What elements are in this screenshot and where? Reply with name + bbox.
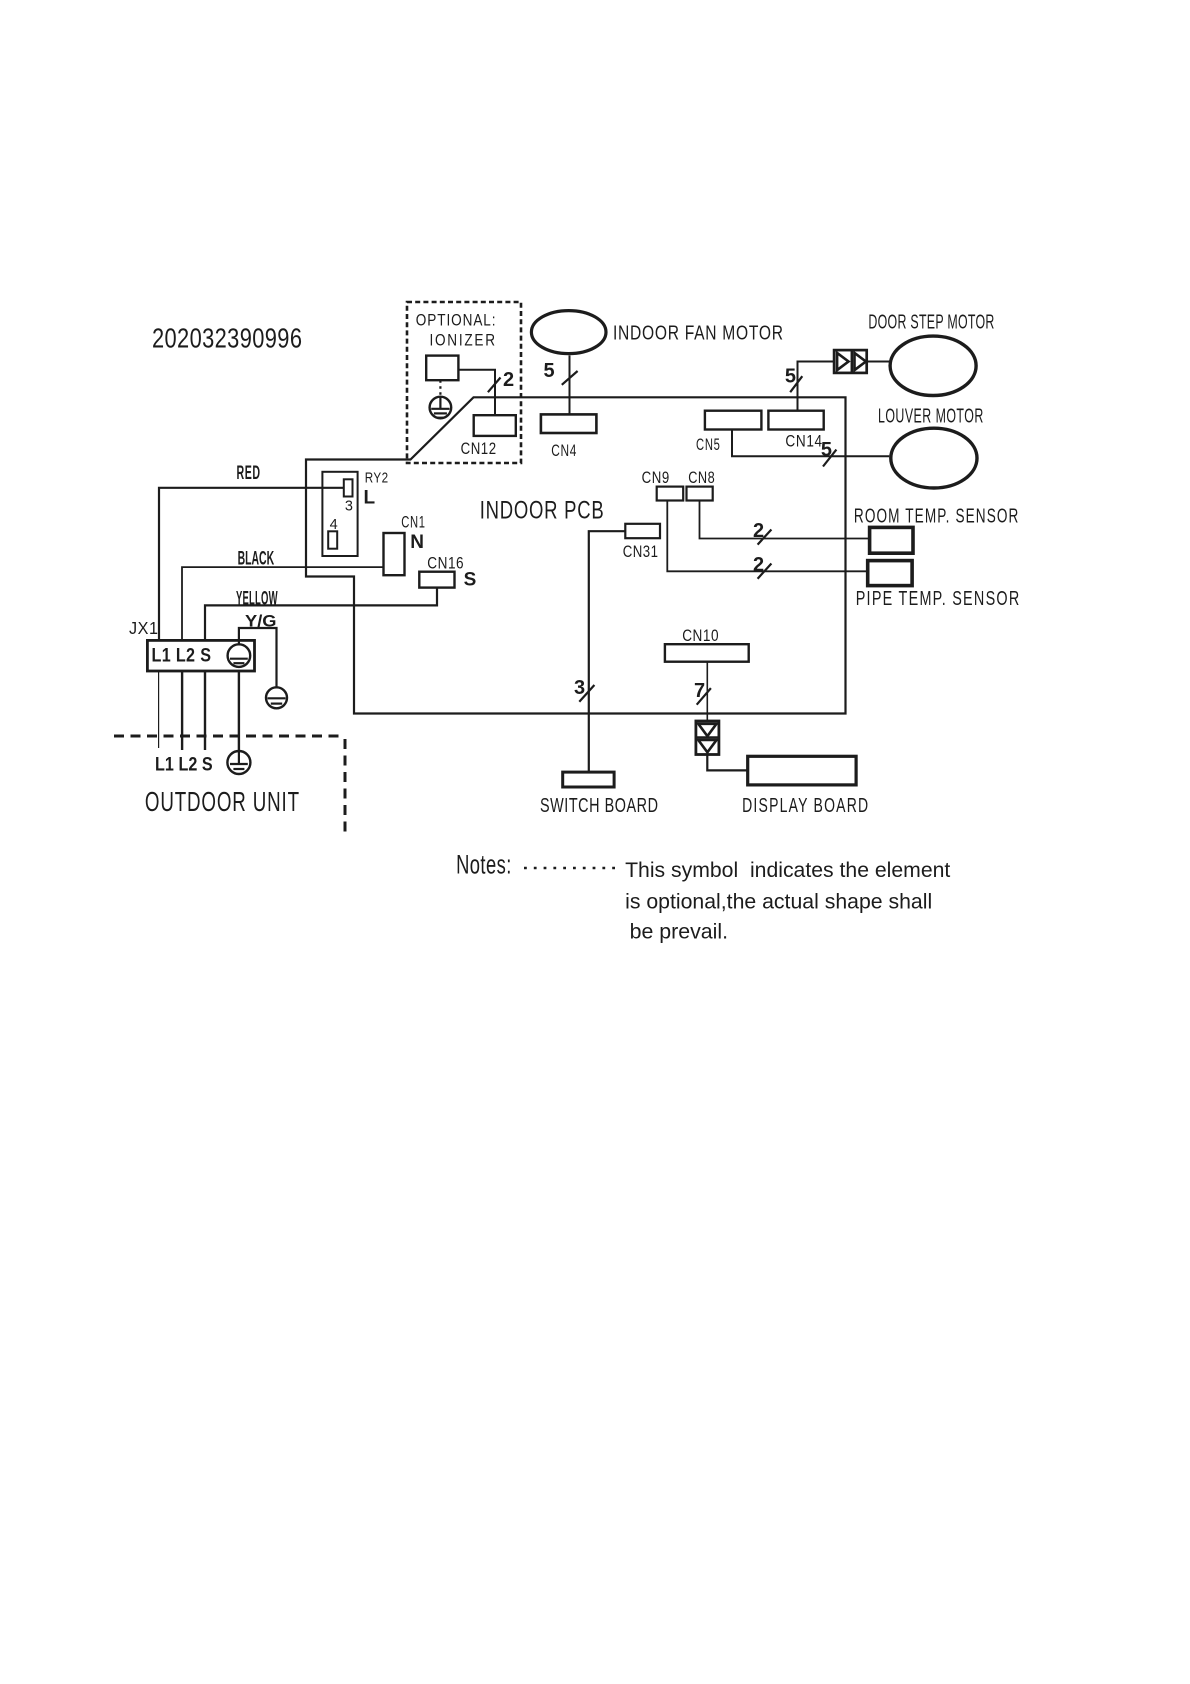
svg-text:3: 3 bbox=[345, 499, 353, 515]
wire RED from JX1 L1 to RY2 pin 3 bbox=[159, 488, 344, 641]
svg-text:CN31: CN31 bbox=[623, 543, 658, 562]
connector CN5 bbox=[705, 411, 762, 430]
display board bbox=[748, 756, 856, 785]
label RED bbox=[237, 463, 261, 484]
connector CN31 bbox=[625, 524, 660, 538]
wire ionizer to CN12 bbox=[458, 370, 495, 415]
label 3 bbox=[574, 677, 585, 699]
indoor PCB outline bbox=[306, 397, 846, 713]
pipe temp sensor bbox=[868, 561, 912, 586]
svg-text:INDOOR PCB: INDOOR PCB bbox=[480, 496, 604, 524]
wire count slash (7 wires) bbox=[697, 688, 711, 705]
label CN8 bbox=[688, 468, 714, 487]
relay RY2 pin 3 bbox=[344, 479, 353, 496]
svg-text:LOUVER MOTOR: LOUVER MOTOR bbox=[878, 404, 983, 427]
svg-text:CN5: CN5 bbox=[696, 436, 720, 455]
wire count slash (2 wires) bbox=[488, 378, 501, 393]
svg-text:OUTDOOR UNIT: OUTDOOR UNIT bbox=[145, 786, 300, 818]
notes heading bbox=[456, 849, 511, 879]
dotted wire to earth bbox=[439, 380, 441, 397]
wire CN14 to diode pair bbox=[798, 362, 835, 411]
label 5 bbox=[544, 360, 555, 382]
svg-text:5: 5 bbox=[785, 366, 796, 388]
label RY2 bbox=[365, 469, 388, 486]
svg-text:IONIZER: IONIZER bbox=[430, 331, 496, 350]
label CN4 bbox=[551, 442, 576, 461]
label 3 bbox=[345, 499, 353, 515]
label L1 L2 S bbox=[152, 644, 212, 666]
svg-text:ROOM TEMP. SENSOR: ROOM TEMP. SENSOR bbox=[854, 505, 1018, 527]
label DOOR STEP MOTOR bbox=[868, 310, 994, 333]
room temp sensor bbox=[870, 527, 913, 553]
svg-text:5: 5 bbox=[544, 360, 555, 382]
svg-text:CN8: CN8 bbox=[688, 468, 714, 487]
label CN16 bbox=[427, 554, 463, 573]
svg-text:L1 L2 S: L1 L2 S bbox=[155, 753, 213, 775]
svg-text:RY2: RY2 bbox=[365, 469, 388, 486]
svg-text:7: 7 bbox=[694, 680, 705, 702]
connector CN8 bbox=[687, 487, 713, 501]
label BLACK bbox=[238, 549, 275, 570]
protective earth ground (JX1) bbox=[228, 644, 251, 667]
svg-text:CN16: CN16 bbox=[427, 554, 463, 573]
svg-text:INDOOR FAN MOTOR: INDOOR FAN MOTOR bbox=[613, 322, 783, 344]
protective earth ground (Y/G) bbox=[266, 687, 287, 708]
svg-text:JX1: JX1 bbox=[129, 618, 158, 638]
svg-text:N: N bbox=[410, 532, 424, 553]
svg-text:L: L bbox=[364, 488, 376, 509]
door step motor bbox=[890, 336, 976, 395]
connector CN16 bbox=[419, 572, 454, 588]
svg-text:CN10: CN10 bbox=[682, 627, 718, 646]
svg-text:L1 L2 S: L1 L2 S bbox=[152, 644, 212, 666]
diode pair (door step motor) bbox=[834, 350, 867, 373]
label 2 bbox=[753, 520, 764, 542]
connector CN14 bbox=[768, 411, 823, 430]
wire L2 down bbox=[181, 671, 183, 750]
svg-text:is optional,the actual shape s: is optional,the actual shape shall bbox=[625, 890, 932, 914]
label 7 bbox=[694, 680, 705, 702]
svg-text:CN9: CN9 bbox=[642, 468, 670, 487]
indoor fan motor bbox=[531, 311, 606, 354]
wire CN10 to diode pair bbox=[706, 662, 708, 721]
label CN5 bbox=[696, 436, 720, 455]
label 2 bbox=[753, 554, 764, 576]
label INDOOR FAN MOTOR bbox=[613, 322, 783, 344]
wire count slash (2 wires) bbox=[758, 564, 772, 579]
label CN31 bbox=[623, 543, 658, 562]
wire CN8 to room temp sensor bbox=[700, 501, 870, 539]
relay RY2 pin 4 bbox=[328, 531, 337, 548]
svg-text:Notes:: Notes: bbox=[456, 849, 511, 879]
protective earth ground (ionizer) bbox=[430, 397, 452, 419]
wire CN9 to pipe temp sensor bbox=[667, 501, 867, 572]
svg-text:3: 3 bbox=[574, 677, 585, 699]
label CN1 bbox=[401, 513, 425, 532]
wire count slash (5 wires) bbox=[790, 376, 802, 392]
svg-text:BLACK: BLACK bbox=[238, 549, 275, 570]
label YELLOW bbox=[236, 588, 278, 610]
label ROOM TEMP. SENSOR bbox=[854, 505, 1018, 527]
label N bbox=[410, 532, 424, 553]
label 2 bbox=[503, 369, 514, 391]
svg-text:PIPE TEMP. SENSOR: PIPE TEMP. SENSOR bbox=[856, 587, 1020, 610]
wire CN5 to louver motor bbox=[732, 430, 889, 457]
svg-text:CN14: CN14 bbox=[785, 432, 822, 451]
wire Y/G to earth bbox=[239, 628, 277, 687]
svg-text:SWITCH BOARD: SWITCH BOARD bbox=[540, 794, 658, 817]
svg-text:Y/G: Y/G bbox=[245, 613, 277, 631]
svg-text:YELLOW: YELLOW bbox=[236, 588, 278, 610]
label DISPLAY BOARD bbox=[742, 794, 868, 817]
svg-text:DOOR STEP MOTOR: DOOR STEP MOTOR bbox=[868, 310, 994, 333]
label CN10 bbox=[682, 627, 718, 646]
svg-text:CN12: CN12 bbox=[461, 439, 496, 458]
svg-text:2: 2 bbox=[503, 369, 514, 391]
protective earth ground (outdoor) bbox=[227, 751, 250, 774]
label S bbox=[464, 569, 477, 590]
label JX1 bbox=[129, 618, 158, 638]
outdoor unit dashed boundary bbox=[114, 736, 345, 837]
svg-text:RED: RED bbox=[237, 463, 261, 484]
svg-text:202032390996: 202032390996 bbox=[152, 323, 302, 354]
label L1 L2 S (outdoor) bbox=[155, 753, 213, 775]
label L bbox=[364, 488, 376, 509]
wire S down bbox=[204, 671, 206, 750]
svg-text:This symbol indicates the ele: This symbol indicates the element bbox=[625, 858, 950, 882]
svg-text:OPTIONAL:: OPTIONAL: bbox=[416, 311, 496, 330]
label SWITCH BOARD bbox=[540, 794, 658, 817]
louver motor bbox=[891, 428, 977, 488]
label Y/G bbox=[245, 613, 277, 631]
wire diode pair to display board bbox=[707, 755, 747, 771]
label INDOOR PCB bbox=[480, 496, 604, 524]
optional ionizer dashed box bbox=[407, 302, 521, 463]
connector CN1 bbox=[384, 533, 405, 575]
svg-text:be prevail.: be prevail. bbox=[630, 920, 729, 944]
wire count slash (5 wires) bbox=[823, 450, 836, 467]
label CN12 bbox=[461, 439, 496, 458]
wire CN31 to switch board bbox=[589, 531, 626, 772]
dotted optional symbol sample bbox=[524, 867, 618, 870]
svg-text:S: S bbox=[464, 569, 477, 590]
svg-text:2: 2 bbox=[753, 520, 764, 542]
label OPTIONAL: bbox=[416, 311, 496, 330]
svg-text:5: 5 bbox=[821, 439, 832, 461]
connector CN9 bbox=[657, 487, 684, 501]
switch board bbox=[563, 772, 614, 787]
svg-text:DISPLAY BOARD: DISPLAY BOARD bbox=[742, 794, 868, 817]
terminal block JX1 bbox=[147, 640, 254, 671]
label IONIZER bbox=[430, 331, 496, 350]
wire YELLOW from JX1 S to CN16 bbox=[205, 588, 437, 641]
wire diode pair to door step motor bbox=[867, 361, 890, 363]
wire L1 down bbox=[158, 671, 160, 748]
part number label bbox=[152, 323, 302, 354]
label CN9 bbox=[642, 468, 670, 487]
wire earth down bbox=[238, 671, 240, 751]
label 5 bbox=[785, 366, 796, 388]
wire fan motor to CN4 bbox=[569, 355, 571, 414]
wire count slash (5 wires) bbox=[562, 371, 578, 385]
diode pair (display board) bbox=[696, 721, 719, 755]
label OUTDOOR UNIT bbox=[145, 786, 300, 818]
svg-text:CN4: CN4 bbox=[551, 442, 576, 461]
svg-text:2: 2 bbox=[753, 554, 764, 576]
relay RY2 box bbox=[322, 472, 357, 556]
label CN14 bbox=[785, 432, 822, 451]
connector CN4 bbox=[541, 414, 597, 433]
connector CN12 bbox=[474, 415, 516, 436]
ionizer unit box bbox=[426, 356, 458, 381]
wire BLACK from JX1 L2 to CN1 bbox=[182, 567, 384, 640]
wire count slash (3 wires) bbox=[579, 685, 594, 702]
label PIPE TEMP. SENSOR bbox=[856, 587, 1020, 610]
label 4 bbox=[330, 517, 338, 533]
notes text bbox=[625, 858, 950, 944]
label LOUVER MOTOR bbox=[878, 404, 983, 427]
connector CN10 bbox=[665, 644, 749, 662]
wire count slash (2 wires) bbox=[758, 530, 772, 545]
svg-text:CN1: CN1 bbox=[401, 513, 425, 532]
label 5 bbox=[821, 439, 832, 461]
